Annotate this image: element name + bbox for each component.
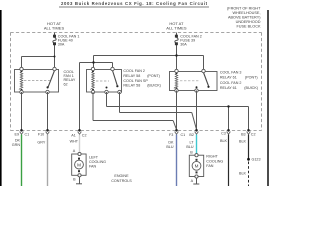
svg-text:RELAY 61: RELAY 61 bbox=[220, 76, 237, 80]
svg-text:30A: 30A bbox=[180, 43, 187, 47]
svg-text:COOL FAN SP: COOL FAN SP bbox=[123, 79, 148, 83]
svg-text:COOL FAN 3: COOL FAN 3 bbox=[220, 71, 242, 75]
svg-text:M: M bbox=[77, 162, 81, 167]
svg-text:CONTROLS: CONTROLS bbox=[111, 179, 132, 183]
svg-text:F3: F3 bbox=[169, 133, 173, 137]
svg-text:B3: B3 bbox=[241, 133, 246, 137]
svg-text:C1: C1 bbox=[25, 133, 30, 137]
svg-text:30A: 30A bbox=[58, 43, 65, 47]
svg-text:(FRONT OF RIGHT: (FRONT OF RIGHT bbox=[227, 6, 261, 10]
svg-text:RELAY 58: RELAY 58 bbox=[123, 84, 140, 88]
svg-text:62: 62 bbox=[64, 82, 68, 86]
svg-text:COOLING: COOLING bbox=[206, 159, 223, 163]
svg-text:ENGINE: ENGINE bbox=[114, 174, 129, 178]
svg-text:B2: B2 bbox=[189, 133, 194, 137]
svg-text:ALL TIMES: ALL TIMES bbox=[44, 26, 65, 31]
svg-text:WHT: WHT bbox=[70, 140, 79, 144]
svg-text:E9: E9 bbox=[14, 133, 19, 137]
svg-text:BLK: BLK bbox=[220, 139, 228, 143]
svg-text:G123: G123 bbox=[252, 158, 261, 162]
svg-text:BLU: BLU bbox=[166, 145, 174, 149]
svg-text:LEFT: LEFT bbox=[89, 155, 99, 159]
svg-text:C3: C3 bbox=[221, 131, 226, 135]
svg-text:WHEELHOUSE,: WHEELHOUSE, bbox=[232, 11, 260, 15]
svg-text:2003 Buick Rendezvous CX Fig.: 2003 Buick Rendezvous CX Fig. 18: Coolin… bbox=[61, 1, 208, 6]
svg-text:(BUICK): (BUICK) bbox=[244, 86, 258, 90]
svg-text:(PONT): (PONT) bbox=[147, 74, 160, 78]
svg-text:FAN: FAN bbox=[206, 164, 214, 168]
svg-text:ABOVE BATTERY): ABOVE BATTERY) bbox=[228, 16, 261, 20]
svg-text:BLU: BLU bbox=[186, 145, 194, 149]
svg-text:FAN: FAN bbox=[89, 165, 97, 169]
svg-text:(PONT): (PONT) bbox=[245, 76, 258, 80]
svg-text:(BUICK): (BUICK) bbox=[147, 84, 161, 88]
svg-text:UNDERHOOD: UNDERHOOD bbox=[236, 20, 261, 24]
svg-text:RELAY 61: RELAY 61 bbox=[220, 86, 237, 90]
svg-text:RIGHT: RIGHT bbox=[206, 155, 218, 159]
svg-text:C2: C2 bbox=[82, 133, 87, 137]
svg-text:F10: F10 bbox=[38, 133, 44, 137]
svg-text:COOL FAN 2: COOL FAN 2 bbox=[123, 69, 145, 73]
svg-text:GRY: GRY bbox=[37, 140, 45, 144]
svg-text:BLK: BLK bbox=[239, 140, 247, 144]
svg-text:COOL FAN 2: COOL FAN 2 bbox=[220, 81, 242, 85]
svg-text:DK: DK bbox=[15, 138, 21, 142]
svg-text:BLK: BLK bbox=[239, 172, 247, 176]
svg-text:ALL TIMES: ALL TIMES bbox=[166, 26, 187, 31]
svg-text:M: M bbox=[195, 164, 199, 169]
svg-text:C1: C1 bbox=[181, 133, 186, 137]
svg-text:FUSE BLOCK: FUSE BLOCK bbox=[236, 25, 261, 29]
svg-text:C2: C2 bbox=[251, 133, 256, 137]
svg-text:A1: A1 bbox=[71, 133, 76, 137]
svg-text:GRN: GRN bbox=[12, 143, 21, 147]
svg-text:RELAY 58: RELAY 58 bbox=[123, 74, 140, 78]
svg-text:COOLING: COOLING bbox=[89, 160, 106, 164]
svg-text:DK: DK bbox=[168, 141, 174, 145]
